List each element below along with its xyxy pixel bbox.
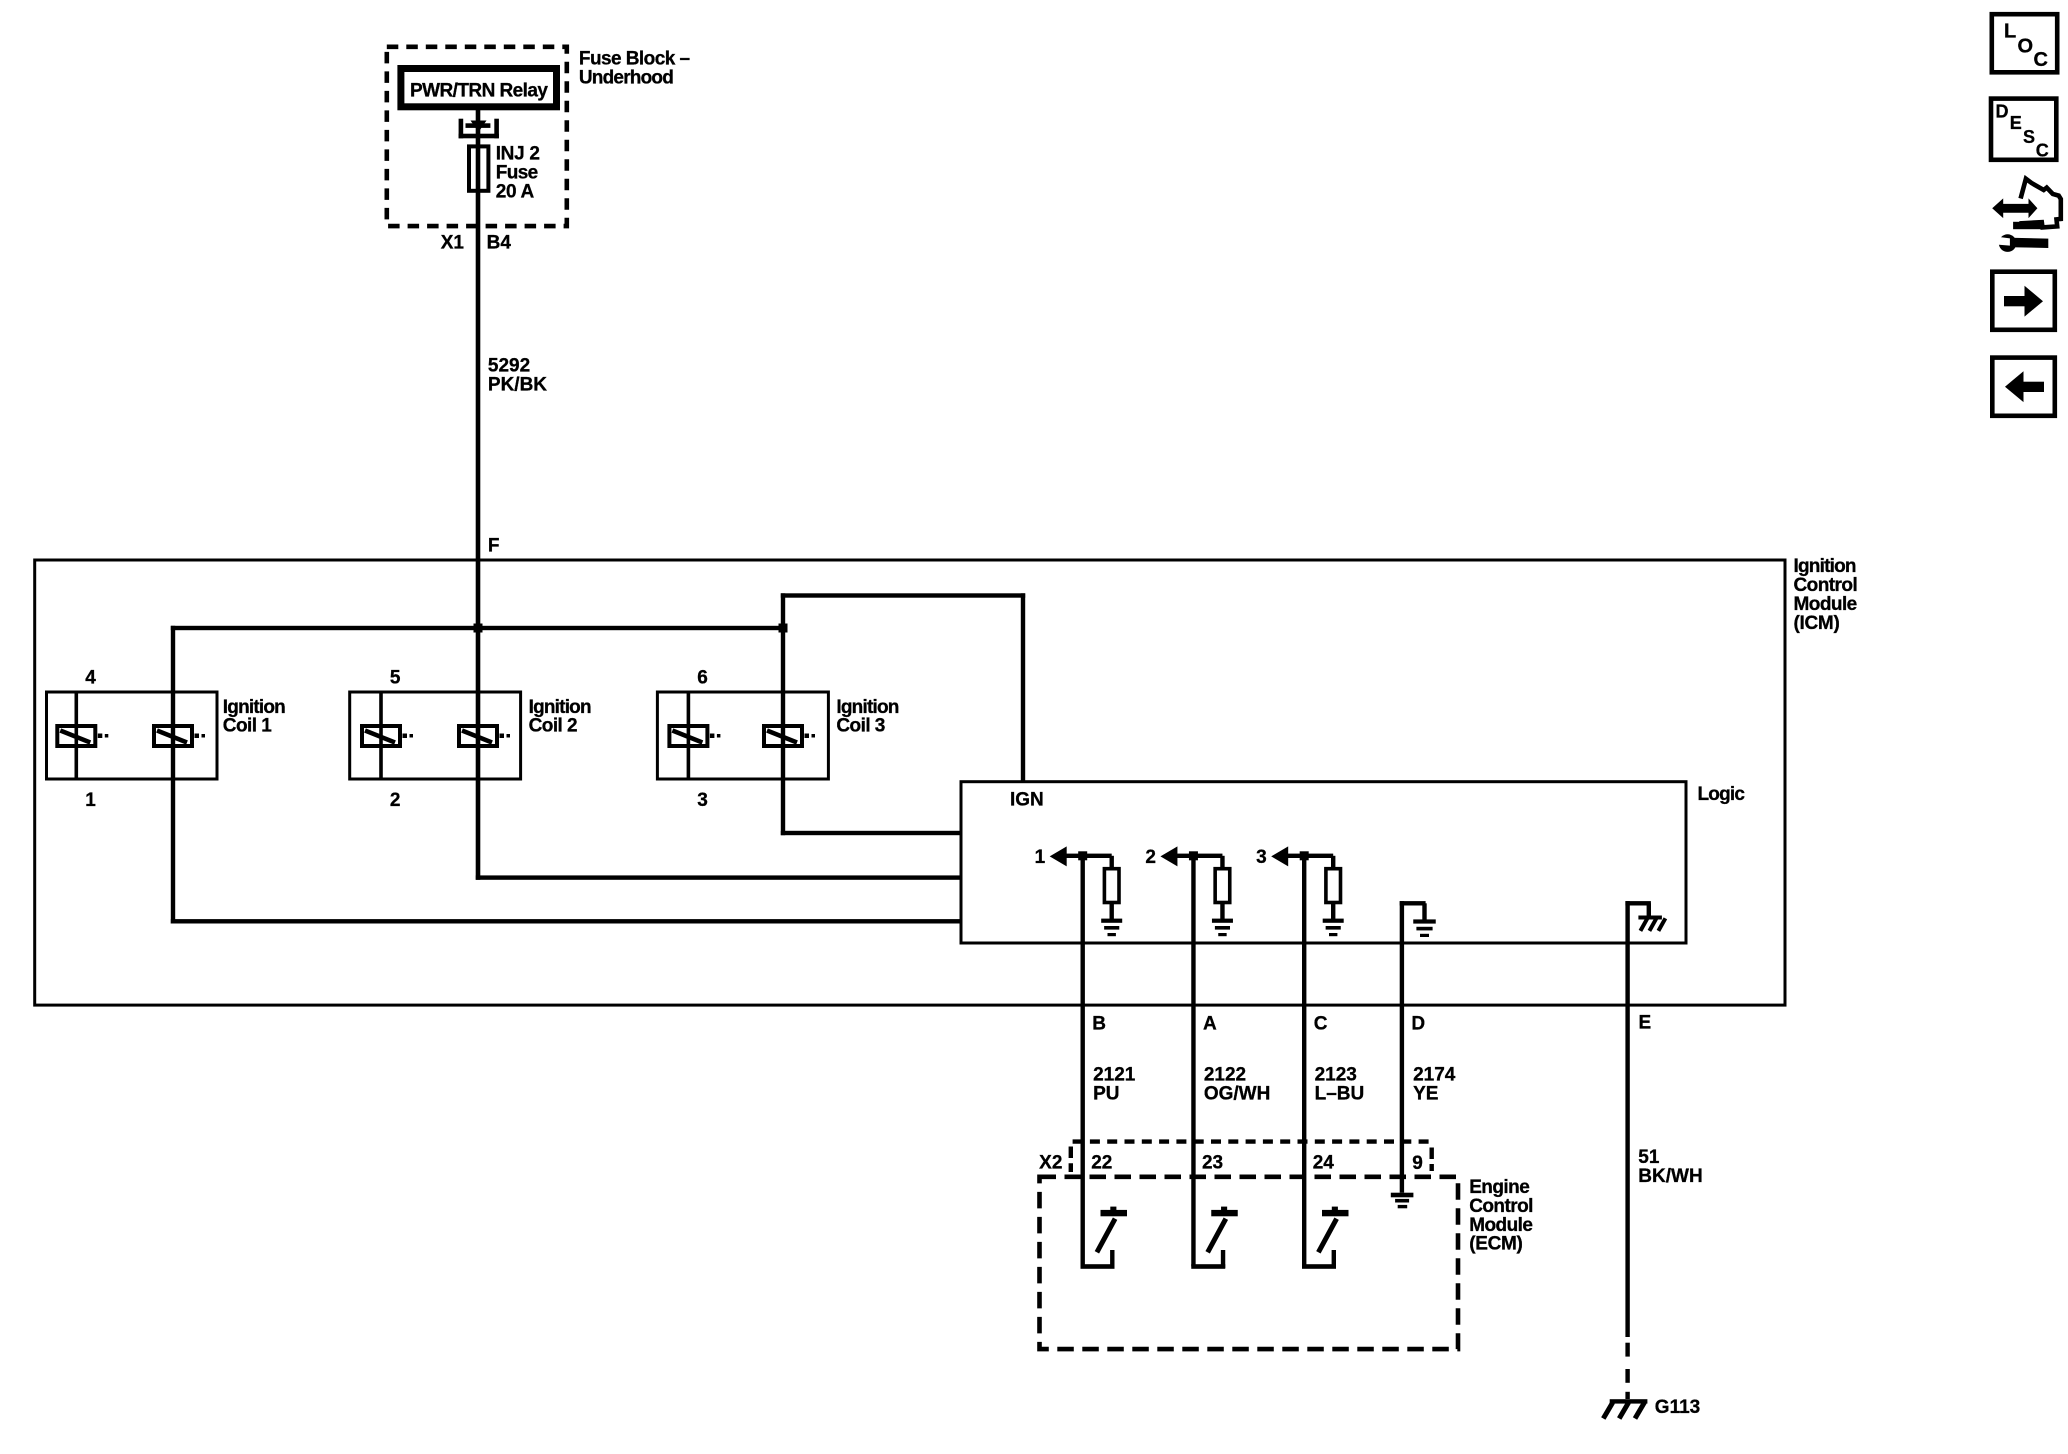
svg-text:C: C (2034, 49, 2048, 71)
label Ignition Coil 2 (529, 697, 591, 737)
svg-text:O: O (2018, 35, 2034, 57)
svg-text:D: D (1996, 101, 2009, 121)
pin labels X1 B4 (441, 232, 512, 253)
wire B 2121 PU (1081, 856, 1085, 1267)
LOC navigation icon (1992, 14, 2057, 72)
svg-text:(ECM): (ECM) (1469, 1234, 1522, 1255)
label 2123 L-BU (1315, 1065, 1365, 1105)
wire C 2123 L-BU (1302, 856, 1306, 1267)
svg-text:Coil 1: Coil 1 (223, 716, 272, 737)
forward arrow icon (1992, 272, 2055, 330)
pin label F (488, 536, 500, 557)
wire: coil 2 return to logic (476, 875, 961, 879)
wire E dashed part to G113 (1625, 1343, 1629, 1399)
label Ignition Control Module (ICM) (1794, 556, 1858, 634)
svg-text:X1: X1 (441, 232, 465, 253)
back arrow icon (1992, 358, 2055, 416)
svg-text:2: 2 (1145, 847, 1156, 868)
svg-text:Logic: Logic (1698, 784, 1746, 805)
svg-text:S: S (2023, 127, 2035, 147)
svg-text:4: 4 (85, 667, 96, 688)
ignition coil 3 box (657, 692, 828, 779)
logic ground pin D wiring (1400, 901, 1427, 943)
label Fuse Block - Underhood (579, 49, 690, 89)
coil 2 secondary pin line (pins 5-2) (379, 692, 383, 779)
wire D 2174 YE (1400, 943, 1404, 1193)
svg-text:PU: PU (1093, 1083, 1119, 1104)
ECM driver for pin 22 (1081, 1207, 1128, 1269)
label X2 (1039, 1153, 1062, 1174)
svg-text:IGN: IGN (1010, 790, 1044, 811)
svg-text:YE: YE (1413, 1083, 1438, 1104)
svg-text:5292: 5292 (488, 356, 530, 377)
svg-text:B: B (1092, 1013, 1106, 1034)
label 2121 PU (1093, 1065, 1136, 1105)
svg-text:C: C (2036, 141, 2049, 161)
svg-text:9: 9 (1412, 1153, 1423, 1174)
pin letter E (1639, 1013, 1652, 1034)
svg-text:F: F (488, 536, 500, 557)
pin number 22 (1091, 1152, 1112, 1173)
svg-text:X2: X2 (1039, 1153, 1062, 1174)
svg-text:BK/WH: BK/WH (1638, 1166, 1702, 1187)
chassis ground symbol for pin E (1638, 916, 1665, 931)
ECM driver for pin 23 (1191, 1207, 1238, 1269)
coil 1 secondary winding element (57, 726, 108, 746)
svg-text:Ignition: Ignition (223, 697, 285, 718)
svg-text:Underhood: Underhood (579, 68, 673, 89)
label 2174 YE (1413, 1065, 1456, 1105)
svg-text:5: 5 (390, 667, 401, 688)
svg-text:B4: B4 (487, 232, 512, 253)
svg-text:1: 1 (1035, 847, 1046, 868)
svg-text:3: 3 (697, 790, 708, 811)
label INJ 2 Fuse 20 A (496, 144, 540, 203)
junction dot at bus and wire F (474, 624, 483, 633)
fuse F (INJ 2 Fuse 20 A) (469, 146, 488, 190)
svg-text:Control: Control (1469, 1196, 1533, 1217)
chassis ground G113 (1603, 1399, 1647, 1418)
svg-text:23: 23 (1202, 1152, 1223, 1173)
relay K (PWR/TRN Relay) (401, 69, 557, 107)
label 2122 OG/WH (1204, 1065, 1271, 1105)
svg-text:Fuse Block –: Fuse Block – (579, 49, 690, 70)
label IGN (1010, 790, 1044, 811)
svg-text:1: 1 (85, 790, 96, 811)
wire 5292 PK/BK from fuse block pin X1/B4 down to ICM pin F (476, 190, 481, 880)
wire: coil 3 feed loop to logic IGN 3 (781, 593, 1025, 835)
label Engine Control Module (ECM) (1469, 1177, 1533, 1255)
label Logic (1698, 784, 1746, 805)
pin number 4 (85, 667, 96, 688)
svg-text:24: 24 (1313, 1152, 1335, 1173)
pin letter B (1092, 1013, 1106, 1034)
pin number 6 (697, 667, 708, 688)
svg-text:Ignition: Ignition (1794, 556, 1856, 577)
svg-text:OG/WH: OG/WH (1204, 1083, 1271, 1104)
pin number 24 (1313, 1152, 1335, 1173)
svg-text:A: A (1203, 1013, 1217, 1034)
svg-text:Coil 2: Coil 2 (529, 716, 577, 737)
logic chassis ground pin E wiring (1625, 901, 1651, 943)
logic ground symbol for pin D (1413, 919, 1436, 937)
coil 1 secondary pin line (pins 4-1) (75, 692, 79, 779)
svg-text:Module: Module (1794, 594, 1857, 615)
ignition coil 2 box (350, 692, 521, 779)
svg-text:(ICM): (ICM) (1794, 613, 1840, 634)
wire A 2122 OG/WH (1191, 856, 1195, 1267)
svg-text:2121: 2121 (1093, 1065, 1136, 1086)
svg-text:E: E (1639, 1013, 1652, 1034)
svg-text:C: C (1314, 1013, 1328, 1034)
svg-text:22: 22 (1091, 1152, 1112, 1173)
logic block box (961, 782, 1686, 943)
svg-text:E: E (2010, 113, 2022, 133)
connector terminal (cup and blade) below relay (459, 119, 499, 139)
svg-text:2122: 2122 (1204, 1065, 1246, 1086)
svg-text:D: D (1411, 1013, 1425, 1034)
coil 3 primary winding element (764, 726, 815, 746)
coil 1 primary winding element (154, 726, 205, 746)
svg-text:L: L (2004, 21, 2016, 43)
svg-text:3: 3 (1256, 847, 1267, 868)
vehicle repair navigation icon (double arrow, outline, wrench) (1992, 179, 2061, 252)
pin letter D (1411, 1013, 1425, 1034)
ignition coil 1 box (47, 692, 218, 779)
svg-text:2123: 2123 (1315, 1065, 1357, 1086)
label Ignition Coil 3 (836, 697, 898, 737)
label 5292 PK/BK (488, 356, 547, 396)
svg-text:51: 51 (1638, 1147, 1660, 1168)
svg-text:L–BU: L–BU (1315, 1083, 1365, 1104)
logic input 2: arrow, pull-down resistor and ground (1145, 846, 1233, 936)
connector X2 dotted line (1071, 1142, 1432, 1172)
junction dot at bus and coil 3 feed (779, 624, 788, 633)
svg-text:20 A: 20 A (496, 181, 535, 202)
wire E 51 BK/WH solid part (1625, 943, 1629, 1337)
svg-text:Module: Module (1469, 1215, 1532, 1236)
label 51 BK/WH (1638, 1147, 1702, 1187)
engine control module (ECM) dashed box (1040, 1177, 1459, 1349)
coil 2 primary winding element (459, 726, 510, 746)
svg-text:PWR/TRN Relay: PWR/TRN Relay (410, 81, 548, 102)
wire: coil 1 primary feed and return to logic pin (171, 626, 961, 924)
coil 3 secondary pin line (pins 6-3) (687, 692, 691, 779)
ECM driver for pin 24 (1302, 1207, 1349, 1269)
svg-text:Control: Control (1794, 575, 1858, 596)
pin number 1 (85, 790, 96, 811)
svg-text:2174: 2174 (1413, 1065, 1456, 1086)
DESC navigation icon (1991, 99, 2056, 161)
pin number 23 (1202, 1152, 1223, 1173)
ECM internal ground at pin 9 (1391, 1193, 1414, 1209)
pin letter C (1314, 1013, 1328, 1034)
svg-text:INJ 2: INJ 2 (496, 144, 540, 165)
pin number 9 (1412, 1153, 1423, 1174)
label G113 (1655, 1397, 1700, 1418)
logic input 3: arrow, pull-down resistor and ground (1256, 846, 1344, 936)
ignition control module (ICM) box (35, 560, 1785, 1005)
label Ignition Coil 1 (223, 697, 285, 737)
coil 3 secondary winding element (669, 726, 720, 746)
svg-text:6: 6 (697, 667, 708, 688)
fuse block - underhood dashed box (387, 47, 567, 226)
power bus wire from coil 1 to coil 3 (171, 626, 785, 630)
svg-text:PK/BK: PK/BK (488, 375, 547, 396)
svg-text:Ignition: Ignition (836, 697, 898, 718)
svg-text:Coil 3: Coil 3 (836, 716, 884, 737)
coil 2 secondary winding element (362, 726, 413, 746)
wire from relay to fuse (476, 110, 481, 146)
pin number 5 (390, 667, 401, 688)
pin letter A (1203, 1013, 1217, 1034)
svg-text:Ignition: Ignition (529, 697, 591, 718)
pin number 2 (390, 790, 401, 811)
svg-text:G113: G113 (1655, 1397, 1700, 1418)
svg-text:Fuse: Fuse (496, 162, 538, 183)
logic input 1: arrow, pull-down resistor and ground (1035, 846, 1123, 936)
svg-text:Engine: Engine (1469, 1177, 1529, 1198)
svg-text:2: 2 (390, 790, 401, 811)
pin number 3 (697, 790, 708, 811)
